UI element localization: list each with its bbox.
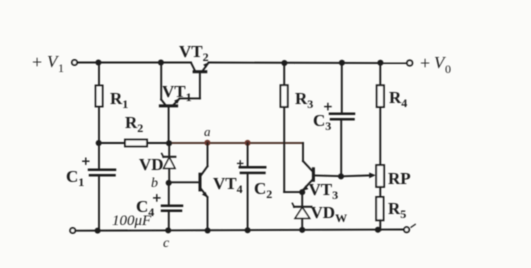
node VT4 emitter bottom junction [205, 228, 211, 234]
capacitor C4 [154, 183, 182, 230]
svg-text:C3: C3 [313, 111, 331, 133]
svg-text:R2: R2 [125, 113, 143, 135]
node R5 bottom junction [375, 227, 381, 233]
node VDw bottom junction [299, 227, 305, 233]
node R4 top junction [377, 60, 383, 66]
svg-text:+: + [420, 53, 430, 73]
wire wiper to RP [341, 173, 376, 179]
svg-text:100μF: 100μF [112, 213, 152, 229]
node C2 top dot [245, 140, 251, 146]
terminal bottom-left [70, 228, 75, 233]
svg-text:VT2: VT2 [179, 42, 209, 64]
svg-text:R1: R1 [110, 89, 128, 111]
node C2 bottom junction [245, 227, 251, 233]
svg-text:R3: R3 [295, 89, 313, 111]
tick mark at bottom-right terminal [411, 224, 415, 227]
node b [166, 180, 172, 186]
terminal bottom-right [404, 227, 409, 232]
terminal +V1 top-left [72, 60, 77, 65]
resistor R3 [281, 63, 301, 192]
svg-text:C1: C1 [66, 167, 84, 189]
wire b to VT4 base [169, 181, 199, 183]
svg-text:VDW: VDW [311, 203, 348, 225]
wire ground rail [75, 230, 404, 231]
resistor R5 [376, 197, 383, 230]
capacitor C2 [238, 143, 266, 230]
transistor VT1 [160, 63, 200, 144]
node C3 top junction [339, 60, 345, 66]
svg-text:1: 1 [58, 61, 64, 75]
svg-text:VT3: VT3 [309, 180, 339, 202]
node C1 bottom junction [95, 228, 101, 234]
node a dot [204, 140, 210, 146]
wire input rail [77, 62, 191, 64]
node VD top junction [166, 140, 172, 146]
svg-text:VD: VD [139, 155, 164, 174]
node R1 top junction [95, 60, 101, 66]
node VT1 collector junction [158, 60, 164, 66]
terminal +V0 top-right [407, 60, 412, 65]
svg-text:RP: RP [388, 169, 411, 188]
transistor VT4 [200, 143, 208, 230]
svg-text:C2: C2 [254, 179, 272, 201]
node R2 left junction [96, 140, 102, 146]
wire node a (reddish segment) [169, 142, 303, 144]
zener diode VDw [292, 193, 311, 231]
transistor VT3 [302, 143, 340, 191]
capacitor C3 [325, 63, 354, 176]
zener diode VD [162, 143, 176, 183]
transistor VT2 [191, 62, 209, 98]
svg-text:c: c [163, 236, 170, 251]
svg-text:VT1: VT1 [162, 82, 192, 104]
node C4 bottom junction [165, 227, 171, 233]
svg-text:+: + [32, 52, 42, 72]
svg-text:VT4: VT4 [213, 174, 243, 196]
svg-text:a: a [204, 124, 211, 139]
resistor R2 [99, 140, 169, 147]
svg-text:R4: R4 [389, 88, 407, 110]
label +V1 [32, 52, 64, 75]
svg-text:R5: R5 [388, 199, 406, 221]
node C3 bottom junction [338, 173, 344, 179]
potentiometer RP [376, 165, 384, 197]
label +V0 [420, 53, 451, 76]
resistor R1 [96, 63, 103, 144]
node R3 top junction [281, 60, 287, 66]
svg-text:b: b [151, 176, 158, 191]
node VT3 emitter junction [299, 189, 305, 195]
svg-text:0: 0 [445, 62, 451, 76]
capacitor C1 [83, 143, 115, 230]
resistor R4 [377, 63, 384, 165]
wire output rail [209, 62, 407, 65]
